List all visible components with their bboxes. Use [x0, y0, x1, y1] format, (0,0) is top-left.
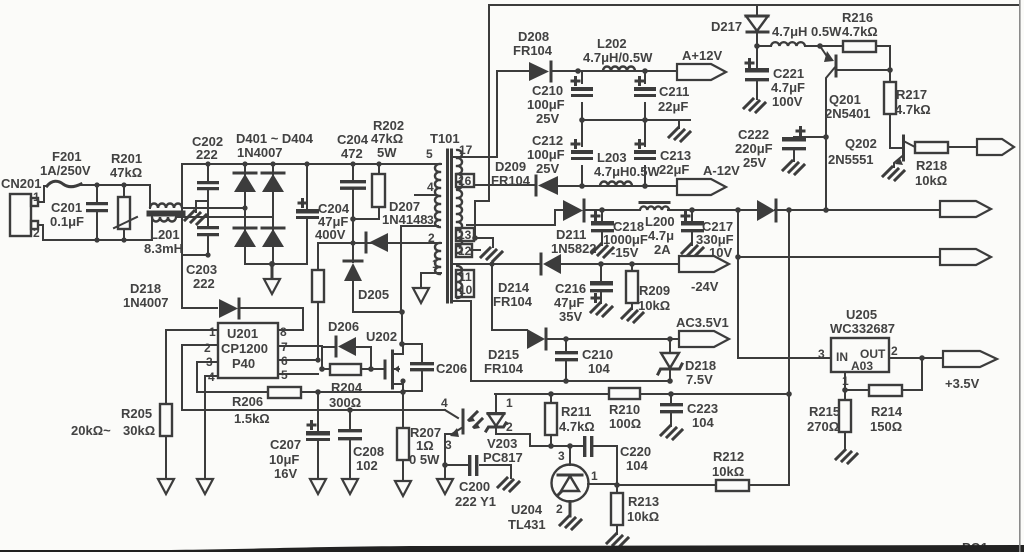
ground chassis hatch C221	[744, 99, 765, 112]
inductor L202 4.7uH 0.5W	[583, 36, 653, 71]
capacitor C202 222	[192, 134, 223, 226]
svg-text:D205: D205	[358, 287, 389, 302]
svg-text:4.7μF: 4.7μF	[771, 80, 805, 95]
svg-text:C206: C206	[436, 361, 467, 376]
node feedback rail junction C208	[347, 407, 353, 413]
svg-text:16V: 16V	[274, 466, 297, 481]
wire L201 top output to bridge	[182, 207, 245, 209]
svg-text:C210: C210	[532, 83, 563, 98]
svg-text:C222: C222	[738, 127, 769, 142]
svg-text:C210: C210	[582, 347, 613, 362]
capacitor C208 102	[338, 410, 384, 479]
ground chassis hatch R209	[622, 309, 643, 322]
node D217 output junction	[754, 43, 760, 49]
svg-text:7.5V: 7.5V	[686, 372, 713, 387]
node output divider junction C220 R213	[614, 482, 620, 488]
svg-text:FR104: FR104	[484, 361, 524, 376]
scan page bottom bar	[0, 545, 1024, 552]
terminal arrow -24V	[679, 256, 729, 294]
svg-text:C203: C203	[186, 262, 217, 277]
svg-text:1.5kΩ: 1.5kΩ	[234, 411, 270, 426]
capacitor C204 47uF 400V electrolytic	[296, 164, 350, 242]
svg-text:2: 2	[428, 231, 435, 245]
node rail junction C217	[689, 207, 695, 213]
svg-text:C207: C207	[270, 437, 301, 452]
svg-text:35V: 35V	[559, 309, 582, 324]
svg-text:PC817: PC817	[483, 450, 523, 465]
wire secondary feed to D211	[467, 210, 563, 225]
svg-text:C201: C201	[51, 200, 82, 215]
capacitor C221 4.7uF 100V	[745, 46, 805, 109]
wire divider rail to R212	[617, 484, 716, 486]
wire C203 bottom to left rail	[182, 254, 208, 256]
svg-text:R201: R201	[111, 151, 142, 166]
terminal arrow 5V output	[940, 201, 991, 217]
transistor U202 MOSFET	[366, 329, 403, 392]
node sense rail junction C223	[668, 391, 674, 397]
svg-text:Q202: Q202	[845, 136, 877, 151]
node rail junction C210	[575, 68, 581, 74]
svg-text:0.1μF: 0.1μF	[50, 214, 84, 229]
svg-text:8.3mH: 8.3mH	[144, 241, 183, 256]
svg-text:L202: L202	[597, 36, 627, 51]
svg-text:-24V: -24V	[691, 279, 719, 294]
wire main 5V rail	[602, 209, 940, 211]
node ref rail junction R211	[548, 443, 554, 449]
ground chassis hatch C200	[498, 478, 519, 491]
fuse F201 1A/250V	[40, 149, 97, 187]
capacitor C210 104	[555, 339, 613, 381]
svg-text:1: 1	[209, 325, 216, 339]
resistor R206 1.5k	[232, 387, 403, 426]
ground chassis hatch R215	[836, 450, 857, 463]
ground chassis hatch C223	[661, 426, 682, 439]
ground chassis hatch C217	[682, 244, 703, 257]
ground chassis hatch at L201 output	[185, 211, 206, 224]
svg-text:220μF: 220μF	[735, 141, 773, 156]
svg-text:25V: 25V	[536, 111, 559, 126]
svg-text:3: 3	[445, 438, 452, 452]
wire pin13 junction to chassis ground	[475, 238, 493, 247]
node -24V rail junction C216	[598, 261, 604, 267]
wire U201 pin2 down to feedback rail	[182, 345, 445, 410]
svg-text:A+12V: A+12V	[682, 48, 722, 63]
capacitor C204 472	[337, 132, 369, 219]
svg-text:C200: C200	[459, 479, 490, 494]
svg-text:100V: 100V	[772, 94, 803, 109]
svg-text:R209: R209	[639, 283, 670, 298]
wire opto emitter ground drop	[444, 465, 446, 479]
node bridge top left	[242, 161, 247, 166]
capacitor C210 100uF 25V	[527, 71, 593, 126]
svg-text:R215: R215	[809, 404, 840, 419]
wire CN201 pin1 to fuse	[38, 186, 47, 202]
svg-text:U202: U202	[366, 329, 397, 344]
node mid rail junction C210	[579, 117, 585, 123]
node top rail junction C204-472	[350, 161, 355, 166]
svg-text:R205: R205	[121, 406, 152, 421]
wire U201 pin1 to R205	[166, 330, 218, 404]
wire U201 pin3 to R206 rail	[197, 362, 268, 392]
node -12V rail junction C213	[642, 183, 648, 189]
node rail junction vertical drop	[786, 207, 792, 213]
svg-text:U201: U201	[227, 326, 258, 341]
wire bridge bottom to ground	[271, 264, 274, 279]
node Q201 base junction R216	[887, 67, 893, 73]
svg-text:T101: T101	[430, 131, 460, 146]
wire U201 pin5 stub	[278, 373, 318, 375]
svg-text:100μF: 100μF	[527, 97, 565, 112]
svg-text:25V: 25V	[743, 155, 766, 170]
capacitor C211 22uF	[634, 71, 689, 120]
svg-text:8: 8	[280, 325, 287, 339]
regulator U205 WC332687	[818, 307, 898, 388]
wire secondary feed junction D215 branch	[489, 261, 494, 266]
svg-text:12: 12	[458, 244, 472, 258]
wire pin12 stub	[471, 249, 480, 251]
capacitor C200 222 Y1	[445, 455, 511, 509]
node input bottom rail junction C201	[94, 237, 99, 242]
wire -24V rail	[601, 263, 679, 265]
svg-text:4.7μH 0.5W: 4.7μH 0.5W	[772, 24, 842, 39]
wire U201 pin7 to gate network	[278, 346, 322, 369]
svg-text:R214: R214	[871, 404, 903, 419]
svg-text:100Ω: 100Ω	[609, 416, 641, 431]
svg-text:4: 4	[441, 396, 448, 410]
svg-text:C213: C213	[660, 148, 691, 163]
svg-text:TL431: TL431	[508, 517, 546, 532]
wire reference rail	[530, 445, 583, 447]
svg-text:47μF: 47μF	[554, 295, 584, 310]
node C222 junction	[823, 134, 829, 140]
svg-text:11: 11	[459, 270, 472, 284]
diode D211 1N5822	[551, 200, 602, 256]
svg-text:A-12V: A-12V	[703, 163, 740, 178]
node bridge bottom junction	[269, 261, 275, 267]
svg-text:C208: C208	[353, 444, 384, 459]
svg-text:P40: P40	[232, 356, 255, 371]
svg-text:3: 3	[558, 449, 565, 463]
svg-text:R210: R210	[609, 402, 640, 417]
node U202 drain	[399, 341, 405, 347]
svg-text:FR104: FR104	[493, 294, 533, 309]
diode D208 FR104	[513, 29, 578, 81]
capacitor C201 0.1uF	[50, 185, 108, 240]
svg-text:25V: 25V	[536, 161, 559, 176]
svg-text:4.7kΩ: 4.7kΩ	[559, 419, 595, 434]
capacitor C206	[402, 344, 467, 391]
wire pin17 riser to D208	[497, 71, 529, 157]
wire AC3.5V1 rail	[566, 338, 679, 340]
capacitor C216 47uF 35V	[554, 264, 613, 324]
diode D217	[711, 5, 768, 46]
svg-text:D215: D215	[488, 347, 519, 362]
svg-text:4: 4	[427, 180, 434, 194]
svg-text:270Ω: 270Ω	[807, 419, 839, 434]
zener diode D218 7.5V	[658, 339, 716, 387]
svg-text:47kΩ: 47kΩ	[110, 165, 142, 180]
capacitor C217 330uF 10V	[681, 210, 734, 260]
svg-text:1N4148: 1N4148	[382, 212, 428, 227]
svg-text:C221: C221	[773, 66, 804, 81]
wire left vertical rail C202 C203	[181, 164, 183, 308]
node rail junction C211	[642, 68, 648, 74]
svg-text:C223: C223	[687, 401, 718, 416]
wire top return rail	[489, 4, 1019, 6]
node rail junction C218	[599, 207, 605, 213]
terminal arrow AC3.5V1	[676, 315, 729, 347]
terminal arrow +3.5V	[943, 351, 997, 391]
svg-text:R216: R216	[842, 10, 873, 25]
svg-text:17: 17	[459, 143, 473, 157]
svg-text:CN201: CN201	[1, 176, 41, 191]
ground triangle opto emitter	[437, 479, 453, 494]
svg-text:2: 2	[204, 341, 211, 355]
scan page right edge line	[1019, 0, 1021, 552]
svg-text:FR104: FR104	[513, 43, 553, 58]
capacitor C213 22uF	[634, 120, 691, 186]
diode D218 1N4007	[123, 281, 303, 330]
resistor R202 47k 5W	[353, 118, 404, 219]
svg-text:R211: R211	[561, 404, 591, 419]
svg-text:1N4007: 1N4007	[123, 295, 169, 310]
svg-text:222: 222	[196, 147, 218, 162]
svg-text:R213: R213	[628, 494, 659, 509]
node adj junction	[842, 387, 848, 393]
wire secondary feed to D214	[453, 263, 539, 265]
svg-text:R218: R218	[916, 158, 947, 173]
optocoupler V203 PC817	[441, 394, 530, 465]
svg-text:5: 5	[426, 147, 433, 161]
wire top input rail	[97, 184, 150, 186]
transformer pin11 pin10 boxed label	[456, 270, 474, 297]
node top rail junction R202	[376, 161, 381, 166]
diode D209 FR104	[491, 159, 582, 195]
resistor R205 20k-30k	[71, 404, 172, 479]
inductor L201 8.3mH common-mode choke	[144, 185, 184, 256]
wire -12V rail	[582, 185, 677, 187]
svg-text:C204: C204	[337, 132, 369, 147]
svg-text:AC3.5V1: AC3.5V1	[676, 315, 729, 330]
transformer T101	[426, 131, 473, 302]
svg-text:3: 3	[818, 347, 825, 361]
resistor R207 1ohm 0.5W	[397, 392, 441, 481]
svg-text:L203: L203	[597, 150, 627, 165]
node gate network right	[368, 366, 374, 372]
capacitor C218 1000uF -15V	[591, 210, 648, 260]
ground triangle U201 pin4	[197, 479, 213, 494]
node output junction R214	[919, 355, 925, 361]
node input top rail junction C201	[94, 182, 99, 187]
ground triangle C207	[310, 479, 326, 494]
svg-text:10kΩ: 10kΩ	[915, 173, 947, 188]
node bottom rail junction R201	[121, 237, 126, 242]
transformer pin12 boxed label	[456, 244, 472, 258]
svg-text:10: 10	[459, 283, 473, 297]
resistor R215 270	[807, 390, 851, 450]
svg-text:150Ω: 150Ω	[870, 419, 902, 434]
wire bridge bottom rail to C204 negative	[306, 219, 308, 264]
svg-text:U204: U204	[511, 502, 543, 517]
wire U205 adj pin down	[844, 372, 846, 390]
node top rail junction R201	[121, 182, 126, 187]
svg-text:10kΩ: 10kΩ	[627, 509, 659, 524]
svg-text:2: 2	[891, 344, 898, 358]
resistor R209 10k	[626, 264, 670, 313]
svg-text:47kΩ: 47kΩ	[371, 131, 403, 146]
svg-text:4.7μ: 4.7μ	[648, 228, 674, 243]
transformer pin16 boxed label	[456, 174, 474, 188]
svg-text:2: 2	[556, 502, 563, 516]
diode on 5V output rail	[757, 200, 776, 221]
ground triangle below bridge	[264, 279, 280, 294]
resistor R201 47k varistor	[110, 151, 142, 240]
diode D214 FR104	[493, 254, 601, 309]
wire U201 pin6 stub	[278, 359, 318, 361]
svg-text:C211: C211	[659, 84, 689, 99]
wire sense rail R210	[495, 393, 789, 395]
node ref rail junction TL431 ref	[567, 443, 573, 449]
resistor R212 10k	[712, 449, 789, 491]
wire top rail left drop	[475, 5, 489, 238]
ground chassis hatch Q202 emitter	[883, 167, 904, 180]
svg-text:1Ω: 1Ω	[416, 438, 434, 453]
wire long vertical from rail to R212 rail	[788, 210, 790, 485]
wire pin10 down to low rail	[453, 301, 471, 381]
terminal arrow A-12V	[677, 163, 740, 195]
wire transformer pin3 to U202 drain	[401, 226, 438, 344]
shunt regulator U204 TL431	[508, 446, 617, 532]
node junction second output rail	[735, 254, 741, 260]
svg-text:472: 472	[341, 146, 363, 161]
node U201 pin6 junction startup	[315, 357, 320, 362]
ground chassis hatch secondary pin12	[481, 248, 502, 261]
svg-text:2N5551: 2N5551	[828, 152, 874, 167]
node mid rail junction C213	[642, 117, 648, 123]
diode D207 1N4148	[366, 199, 428, 252]
svg-text:D206: D206	[328, 319, 359, 334]
node C203 bottom junction	[205, 252, 210, 257]
wire C202 C203 midpoint to chassis ground	[196, 201, 208, 212]
resistor R210 100	[609, 388, 641, 431]
svg-text:R206: R206	[232, 394, 263, 409]
wire pin16 to D209	[474, 184, 534, 186]
capacitor C220 104	[583, 436, 651, 485]
node U202 source rail	[400, 389, 406, 395]
transistor Q202 2N5551	[828, 136, 915, 167]
svg-text:WC332687: WC332687	[830, 321, 895, 336]
svg-text:1: 1	[432, 257, 439, 271]
transistor Q201 2N5401	[820, 46, 890, 137]
wire transformer pin17	[454, 156, 497, 158]
svg-text:1A/250V: 1A/250V	[40, 163, 91, 178]
svg-text:D401 ~ D404: D401 ~ D404	[236, 131, 314, 146]
svg-text:22μF: 22μF	[658, 99, 688, 114]
svg-text:104: 104	[692, 415, 714, 430]
diode D206 gate	[322, 319, 371, 369]
svg-text:10kΩ: 10kΩ	[712, 464, 744, 479]
node -24V rail junction R209	[629, 261, 635, 267]
svg-text:D218: D218	[685, 358, 716, 373]
svg-text:C212: C212	[532, 133, 563, 148]
terminal arrow second output	[940, 249, 991, 265]
capacitor C212 100uF 25V	[527, 120, 593, 186]
svg-text:400V: 400V	[315, 227, 346, 242]
node sense rail junction R211	[548, 391, 554, 397]
svg-text:R204: R204	[331, 380, 363, 395]
svg-text:C216: C216	[555, 281, 586, 296]
ground triangle primary pin1	[413, 288, 429, 303]
node bridge top right	[270, 161, 275, 166]
resistor R213 10k	[611, 485, 659, 534]
ground chassis hatch mid rail	[669, 128, 690, 141]
wire U205 output to 3.5V arrow	[889, 357, 943, 359]
wire transformer pin4 stub	[415, 194, 436, 196]
wire drop from rail to second output	[737, 210, 739, 257]
svg-text:D211: D211	[556, 227, 586, 242]
node rail junction Q201 collector	[823, 207, 829, 213]
svg-text:1N4007: 1N4007	[237, 145, 283, 160]
svg-text:4.7kΩ: 4.7kΩ	[895, 102, 931, 117]
node rail junction drop to U205	[735, 207, 741, 213]
wire CN201 pin2 to bottom rail	[38, 225, 152, 240]
node junction C204-472 R202	[350, 216, 356, 222]
svg-text:5W: 5W	[377, 145, 397, 160]
capacitor C207 10uF 16V electrolytic	[269, 392, 330, 481]
svg-text:+3.5V: +3.5V	[945, 376, 980, 391]
wire +12V rail	[578, 70, 677, 72]
node top rail junction C202	[205, 161, 210, 166]
svg-text:1: 1	[506, 396, 513, 410]
ground triangle C208	[342, 479, 358, 494]
svg-text:22μF: 22μF	[659, 162, 689, 177]
terminal arrow A+12V	[677, 48, 726, 80]
ground chassis hatch R213	[607, 534, 628, 547]
svg-text:1: 1	[591, 469, 598, 483]
node secondary pin13 junction	[472, 235, 478, 241]
svg-text:0 5W: 0 5W	[409, 452, 440, 467]
wire low secondary rail	[471, 380, 670, 382]
svg-text:2A: 2A	[654, 242, 671, 257]
resistor R211 4.7k	[545, 394, 595, 446]
svg-text:L201: L201	[150, 227, 180, 242]
ground triangle R205	[158, 479, 174, 494]
svg-text:2N5401: 2N5401	[825, 106, 871, 121]
svg-text:D209: D209	[495, 159, 526, 174]
IC U201 CP1200 P40	[204, 323, 288, 384]
svg-text:104: 104	[626, 458, 648, 473]
wire branch down to D215	[492, 264, 527, 330]
node sense rail junction vertical	[786, 391, 792, 397]
node U202 source	[400, 378, 405, 383]
svg-text:30kΩ: 30kΩ	[123, 423, 155, 438]
node low rail junction C210b	[563, 378, 569, 384]
svg-text:R212: R212	[713, 449, 744, 464]
svg-text:FR104: FR104	[491, 173, 531, 188]
inductor L200 4.7uH 2A	[640, 203, 675, 258]
diode D215 FR104	[484, 329, 566, 376]
resistor R217 4.7k	[884, 70, 931, 148]
svg-text:222 Y1: 222 Y1	[455, 494, 496, 509]
ground chassis hatch C216	[591, 303, 612, 316]
svg-text:20kΩ~: 20kΩ~	[71, 423, 111, 438]
svg-text:D208: D208	[518, 29, 549, 44]
svg-text:D214: D214	[498, 280, 530, 295]
ground chassis hatch C222	[783, 161, 804, 174]
svg-text:IN: IN	[836, 350, 848, 364]
ground triangle R207	[395, 481, 411, 496]
svg-text:100μF: 100μF	[527, 147, 565, 162]
